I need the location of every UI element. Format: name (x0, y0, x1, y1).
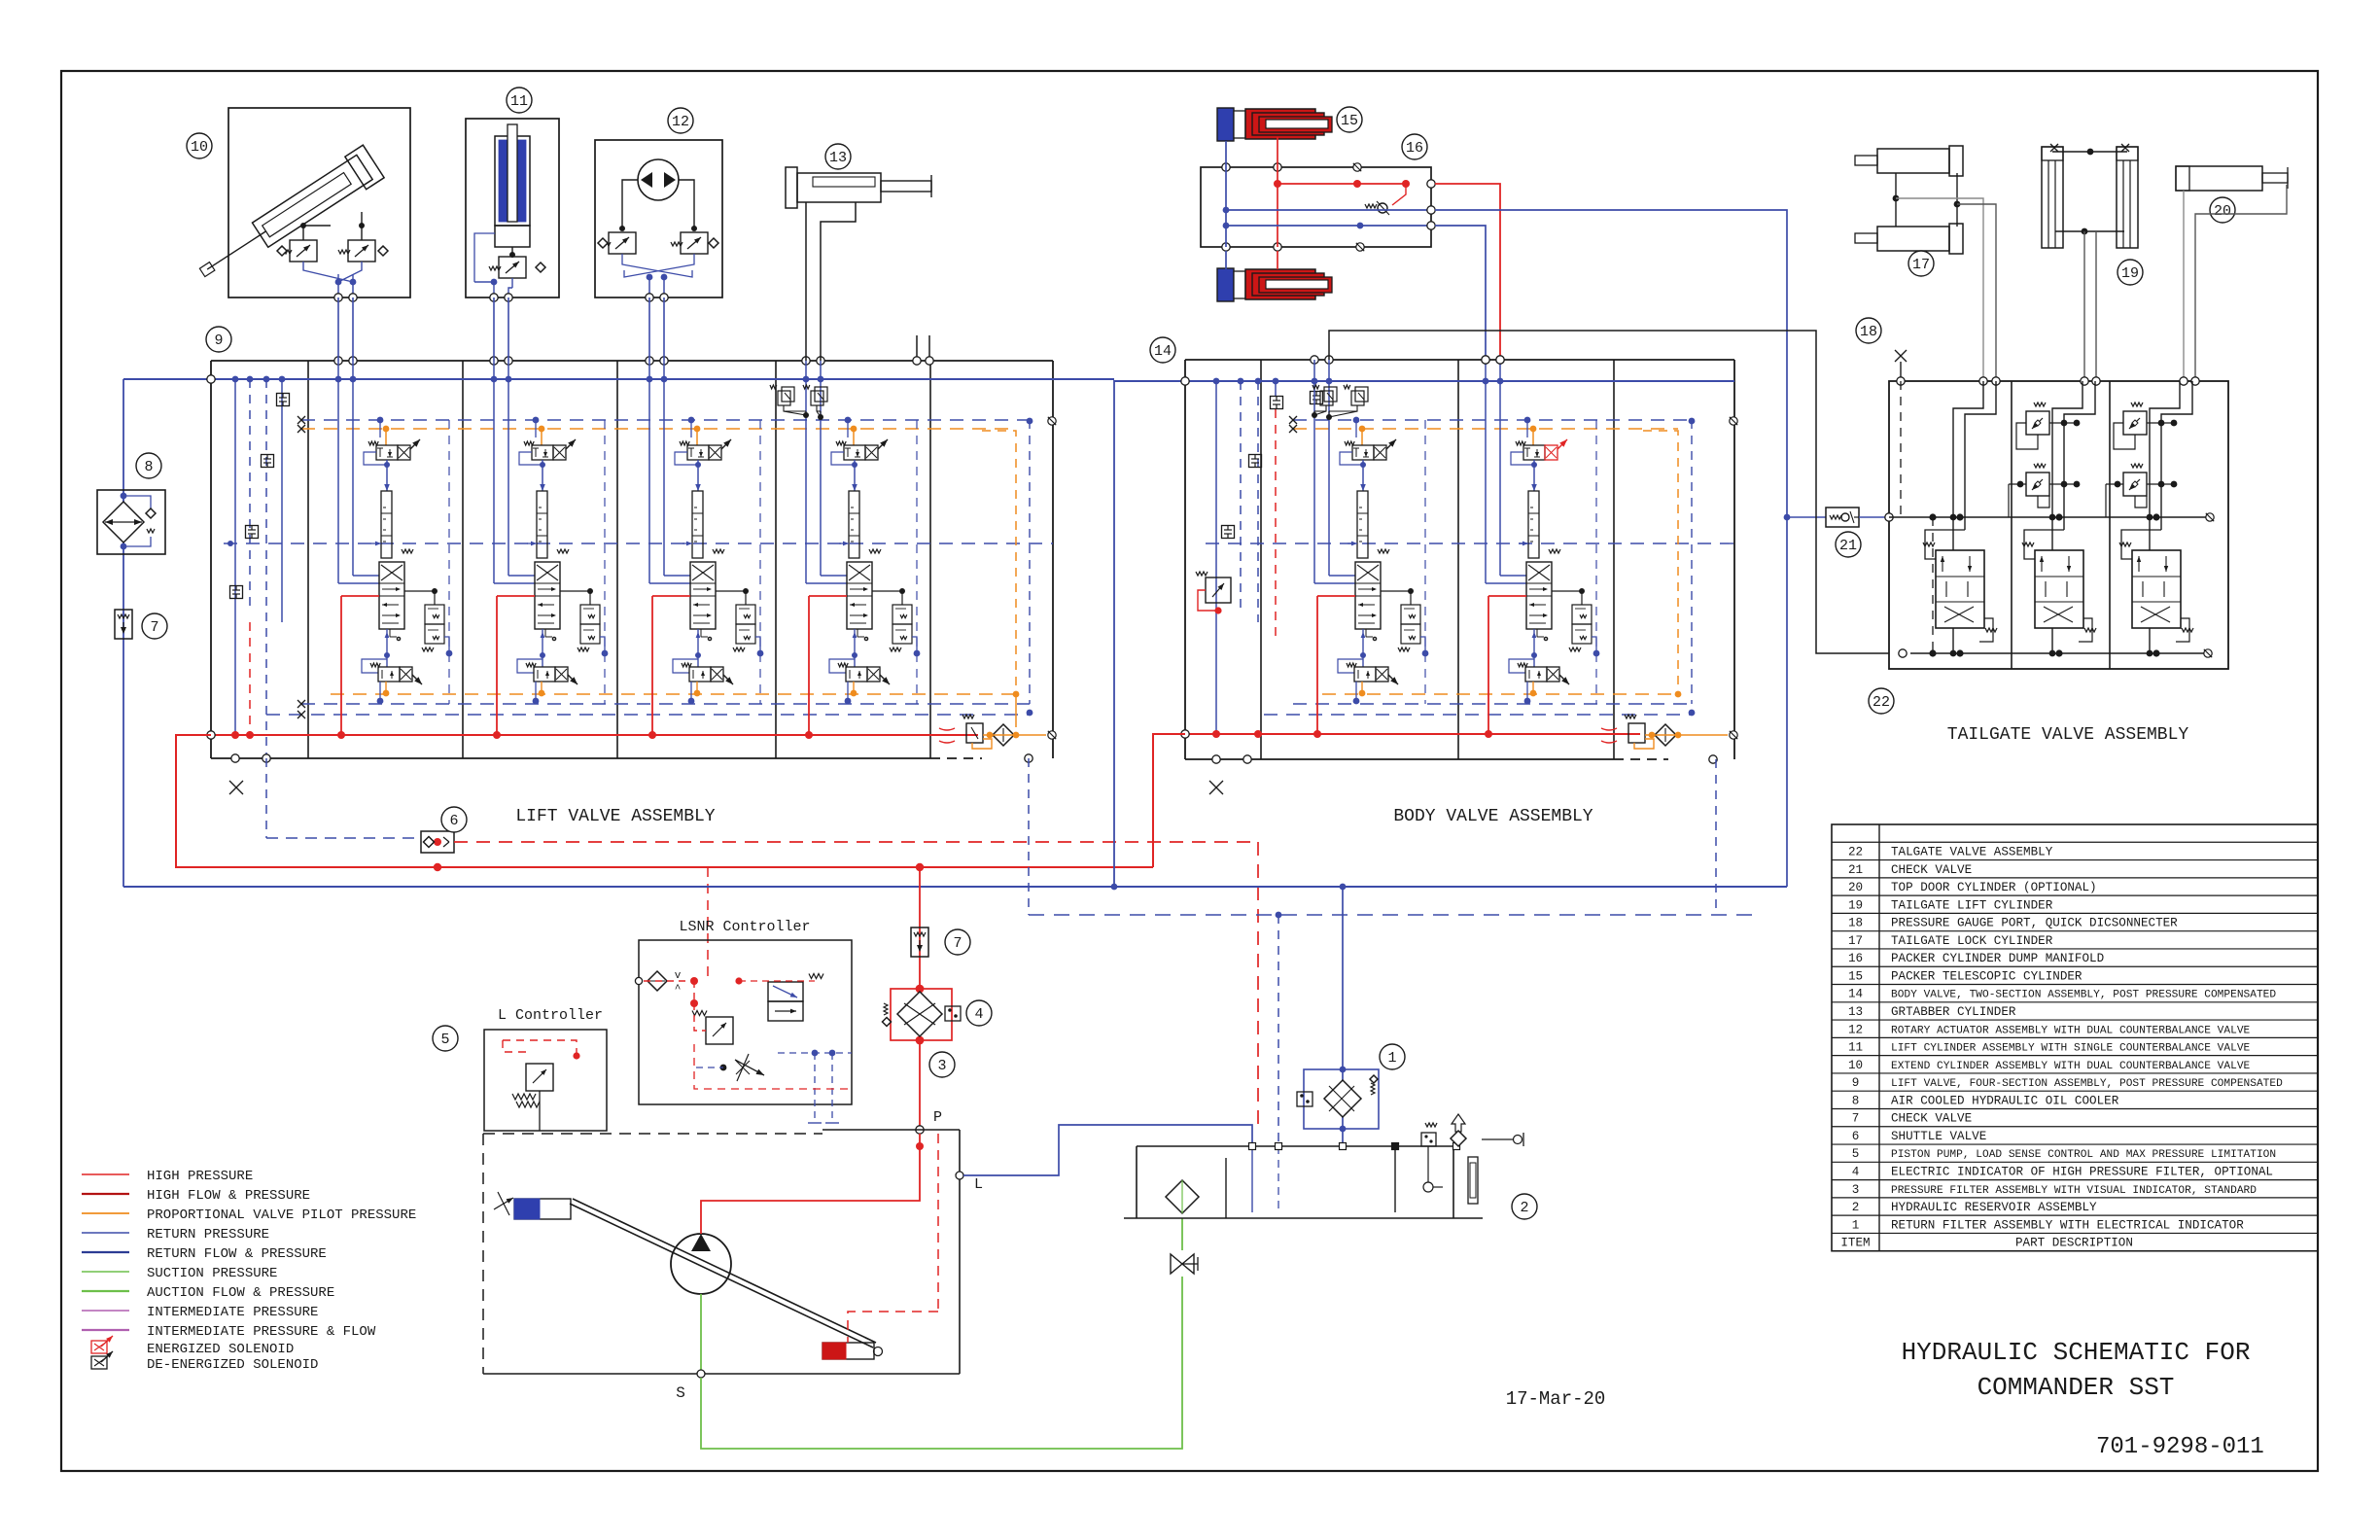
svg-text:PACKER TELESCOPIC CYLINDER: PACKER TELESCOPIC CYLINDER (1891, 969, 2082, 983)
svg-text:5: 5 (1852, 1147, 1860, 1161)
red pilot into pump box (848, 1134, 938, 1343)
wire: box11 to lift section2 (494, 297, 508, 361)
svg-text:EXTEND CYLINDER ASSEMBLY WITH: EXTEND CYLINDER ASSEMBLY WITH DUAL COUNT… (1891, 1061, 2251, 1072)
lift valve assembly rails (123, 375, 1114, 794)
pilot relief glyphs section 4 (770, 385, 827, 420)
wire: manifold blue to body station B (1435, 226, 1489, 364)
svg-text:14: 14 (1848, 988, 1863, 1001)
wire: manifold red to body station B (1435, 184, 1504, 364)
BODY VALVE ASSEMBLY label (1393, 807, 1592, 826)
P riser red line (919, 867, 921, 1130)
wire: cylinder13 to lift section4 (806, 202, 856, 361)
svg-text:TAILGATE VALVE ASSEMBLY: TAILGATE VALVE ASSEMBLY (1947, 725, 2189, 745)
svg-text:P: P (933, 1109, 942, 1126)
svg-text:3: 3 (1852, 1183, 1860, 1197)
svg-text:18: 18 (1848, 917, 1863, 930)
body valve station B (energized) (1482, 356, 1600, 738)
svg-text:22: 22 (1848, 845, 1863, 858)
return filter assembly 1 (1297, 887, 1405, 1146)
svg-text:ELECTRIC INDICATOR OF HIGH PRE: ELECTRIC INDICATOR OF HIGH PRESSURE FILT… (1891, 1166, 2273, 1179)
svg-text:17-Mar-20: 17-Mar-20 (1506, 1388, 1606, 1410)
svg-text:AUCTION FLOW & PRESSURE: AUCTION FLOW & PRESSURE (147, 1285, 334, 1301)
svg-text:BODY VALVE, TWO-SECTION ASSEMB: BODY VALVE, TWO-SECTION ASSEMBLY, POST P… (1891, 990, 2276, 1001)
svg-text:RETURN FLOW & PRESSURE: RETURN FLOW & PRESSURE (147, 1246, 327, 1262)
svg-text:10: 10 (1848, 1059, 1863, 1072)
body assembly end section (1601, 417, 1737, 749)
lift valve station 4 (802, 357, 921, 739)
svg-text:RETURN FILTER ASSEMBLY WITH EL: RETURN FILTER ASSEMBLY WITH ELECTRICAL I… (1891, 1218, 2244, 1232)
lift valve assembly 9 outline (211, 361, 1053, 762)
svg-text:LIFT VALVE, FOUR-SECTION ASSEM: LIFT VALVE, FOUR-SECTION ASSEMBLY, POST … (1891, 1078, 2283, 1090)
tailgate valve station 2 (2009, 381, 2096, 656)
rotary actuator assembly 12 (595, 108, 722, 301)
lift assembly end section (913, 335, 1056, 749)
svg-text:PROPORTIONAL VALVE PILOT PRESS: PROPORTIONAL VALVE PILOT PRESSURE (147, 1207, 416, 1223)
svg-text:TOP DOOR CYLINDER (OPTIONAL): TOP DOOR CYLINDER (OPTIONAL) (1891, 881, 2097, 894)
svg-text:DE-ENERGIZED SOLENOID: DE-ENERGIZED SOLENOID (147, 1357, 318, 1373)
wire: box12 to lift section3 (649, 297, 664, 361)
tailgate assembly trunks (1859, 381, 2214, 657)
svg-text:ENERGIZED SOLENOID: ENERGIZED SOLENOID (147, 1342, 294, 1357)
wire: box10 to lift section1 (338, 297, 353, 361)
svg-text:7: 7 (1852, 1112, 1860, 1126)
check valve 7 on riser (911, 927, 970, 957)
svg-text:13: 13 (829, 150, 847, 166)
svg-text:ITEM: ITEM (1840, 1237, 1870, 1250)
wire: cylinder17 to tailgate valve (1896, 198, 1996, 381)
svg-text:^: ^ (675, 984, 682, 996)
blue return dashed line (1029, 758, 1758, 1146)
svg-text:21: 21 (1848, 863, 1863, 877)
svg-text:SHUTTLE VALVE: SHUTTLE VALVE (1891, 1130, 1986, 1143)
S port suction line (676, 1218, 1182, 1449)
svg-text:20: 20 (1848, 881, 1863, 894)
svg-text:GRTABBER CYLINDER: GRTABBER CYLINDER (1891, 1005, 2016, 1019)
svg-text:10: 10 (191, 139, 208, 156)
drawing title (1902, 1338, 2264, 1460)
svg-text:TAILGATE LOCK CYLINDER: TAILGATE LOCK CYLINDER (1891, 934, 2053, 948)
svg-text:4: 4 (1852, 1166, 1860, 1179)
wire: cylinder19 to tailgate valve (2055, 228, 2124, 381)
svg-text:3: 3 (937, 1058, 946, 1074)
svg-text:INTERMEDIATE PRESSURE: INTERMEDIATE PRESSURE (147, 1305, 318, 1320)
svg-text:16: 16 (1848, 952, 1863, 965)
svg-text:8: 8 (1852, 1094, 1860, 1107)
svg-text:CHECK VALVE: CHECK VALVE (1891, 1112, 1972, 1126)
svg-text:12: 12 (672, 114, 689, 130)
svg-text:RETURN PRESSURE: RETURN PRESSURE (147, 1227, 269, 1242)
svg-text:17: 17 (1912, 257, 1930, 273)
svg-text:1: 1 (1387, 1050, 1396, 1067)
svg-text:CHECK VALVE: CHECK VALVE (1891, 863, 1972, 877)
svg-text:9: 9 (1852, 1076, 1860, 1090)
P port label (916, 1109, 942, 1134)
svg-text:6: 6 (449, 813, 458, 829)
svg-text:22: 22 (1872, 694, 1890, 711)
tailgate lock cylinder 17 (1855, 146, 1963, 276)
svg-text:11: 11 (510, 93, 528, 110)
svg-text:PISTON PUMP, LOAD SENSE CONTRO: PISTON PUMP, LOAD SENSE CONTROL AND MAX … (1891, 1149, 2276, 1161)
pilot relief glyphs body station A (1312, 385, 1368, 420)
air cooled oil cooler 8 (97, 379, 165, 887)
shuttle valve 6 (266, 758, 467, 853)
tailgate valve station 3 (2106, 381, 2193, 656)
extend cylinder assembly 10 (187, 108, 410, 301)
svg-text:1: 1 (1852, 1218, 1860, 1232)
circled 5 (433, 1026, 458, 1051)
svg-text:v: v (675, 970, 682, 982)
svg-text:17: 17 (1848, 934, 1863, 948)
svg-text:INTERMEDIATE PRESSURE & FLOW: INTERMEDIATE PRESSURE & FLOW (147, 1324, 376, 1340)
svg-text:PART DESCRIPTION: PART DESCRIPTION (2015, 1237, 2133, 1250)
svg-text:COMMANDER SST: COMMANDER SST (1977, 1373, 2175, 1402)
svg-text:2: 2 (1852, 1201, 1860, 1214)
svg-text:S: S (676, 1384, 685, 1402)
svg-text:L Controller: L Controller (498, 1007, 603, 1024)
wire: body valve to tailgate assembly return (1329, 331, 1889, 653)
blue return trunk (123, 884, 1787, 891)
LIFT VALVE ASSEMBLY label (515, 807, 715, 826)
svg-text:11: 11 (1848, 1041, 1863, 1055)
svg-text:20: 20 (2214, 203, 2231, 220)
svg-text:TAILGATE LIFT CYLINDER: TAILGATE LIFT CYLINDER (1891, 898, 2053, 912)
lift valve station 1 (334, 357, 453, 739)
svg-text:21: 21 (1839, 538, 1857, 554)
svg-text:LIFT CYLINDER ASSEMBLY WITH SI: LIFT CYLINDER ASSEMBLY WITH SINGLE COUNT… (1891, 1043, 2251, 1055)
svg-text:15: 15 (1341, 113, 1358, 129)
svg-text:LSNR Controller: LSNR Controller (679, 919, 810, 935)
packer telescopic cylinder 15 bottom (1217, 268, 1332, 301)
svg-text:8: 8 (144, 459, 153, 475)
TAILGATE VALVE ASSEMBLY label (1947, 725, 2189, 745)
svg-text:TALGATE VALVE ASSEMBLY: TALGATE VALVE ASSEMBLY (1891, 845, 2053, 858)
grabber cylinder 13 (786, 144, 931, 208)
svg-text:5: 5 (440, 1032, 449, 1048)
circled 14 (1150, 337, 1175, 363)
date (1506, 1388, 1606, 1410)
wire: manifold blue to tailgate check valve (1435, 210, 1826, 887)
circled 9 (206, 327, 231, 352)
svg-text:19: 19 (1848, 898, 1863, 912)
body valve station A (1311, 356, 1429, 738)
parts list table (1832, 824, 2318, 1251)
svg-text:HYDRAULIC SCHEMATIC FOR: HYDRAULIC SCHEMATIC FOR (1902, 1338, 2251, 1367)
red pressure trunk from pump (176, 735, 1153, 871)
top door cylinder 20 (2176, 166, 2288, 223)
drain shut-off valve (1171, 1254, 1198, 1274)
lift cylinder assembly 11 (466, 87, 559, 301)
svg-text:HYDRAULIC RESERVOIR ASSEMBLY: HYDRAULIC RESERVOIR ASSEMBLY (1891, 1201, 2097, 1214)
svg-text:16: 16 (1406, 140, 1423, 157)
red trunk from body assembly (1153, 734, 1185, 867)
tailgate valve assembly 22 outline (1889, 377, 2228, 669)
circled 22 (1869, 688, 1894, 714)
lift valve station 2 (490, 357, 609, 739)
check valve 21 (1826, 507, 1861, 557)
body valve assembly rails (1114, 377, 1734, 794)
packer cylinder dump manifold 16 (1201, 134, 1435, 269)
svg-text:HIGH FLOW & PRESSURE: HIGH FLOW & PRESSURE (147, 1188, 310, 1204)
red pilot line from shuttle (454, 842, 1258, 1130)
svg-text:701-9298-011: 701-9298-011 (2096, 1434, 2264, 1460)
LSNR Controller box (635, 919, 852, 1123)
blue rail drop (1113, 380, 1115, 887)
L Controller box (484, 1007, 607, 1131)
svg-text:4: 4 (974, 1006, 983, 1023)
svg-text:AIR COOLED HYDRAULIC OIL COOLE: AIR COOLED HYDRAULIC OIL COOLER (1891, 1094, 2119, 1107)
svg-text:18: 18 (1860, 324, 1877, 340)
pump assembly boundary (483, 1130, 960, 1374)
svg-text:13: 13 (1848, 1005, 1863, 1019)
piston pump 5 (494, 1192, 883, 1359)
legend (82, 1169, 416, 1373)
svg-text:7: 7 (150, 619, 158, 636)
L port line (956, 1125, 1252, 1193)
pressure gauge port 18 (1856, 318, 1907, 381)
tailgate valve station 1 (1923, 381, 1997, 656)
svg-text:PRESSURE FILTER ASSEMBLY WITH: PRESSURE FILTER ASSEMBLY WITH VISUAL IND… (1891, 1185, 2257, 1197)
svg-text:7: 7 (953, 935, 962, 952)
svg-text:ROTARY ACTUATOR ASSEMBLY WITH: ROTARY ACTUATOR ASSEMBLY WITH DUAL COUNT… (1891, 1025, 2251, 1036)
svg-text:6: 6 (1852, 1130, 1860, 1143)
svg-text:19: 19 (2121, 265, 2139, 282)
wire: cylinder20 to tailgate valve (2184, 185, 2287, 381)
svg-text:SUCTION PRESSURE: SUCTION PRESSURE (147, 1266, 277, 1281)
hydraulic reservoir assembly 2 (1124, 1114, 1537, 1219)
svg-text:14: 14 (1154, 343, 1172, 360)
svg-text:L: L (974, 1176, 983, 1193)
svg-text:LIFT VALVE ASSEMBLY: LIFT VALVE ASSEMBLY (515, 807, 715, 826)
check valve 7 left (115, 610, 167, 639)
svg-text:PACKER CYLINDER DUMP MANIFOLD: PACKER CYLINDER DUMP MANIFOLD (1891, 952, 2104, 965)
svg-text:12: 12 (1848, 1023, 1863, 1036)
red discharge line pump to P (701, 1134, 924, 1234)
svg-text:HIGH PRESSURE: HIGH PRESSURE (147, 1169, 253, 1184)
body valve assembly 14 outline (1185, 360, 1734, 763)
svg-text:9: 9 (214, 332, 223, 349)
packer telescopic cylinder 15 top (1217, 107, 1362, 141)
lift valve station 3 (646, 357, 764, 739)
svg-text:BODY VALVE ASSEMBLY: BODY VALVE ASSEMBLY (1393, 807, 1592, 826)
tailgate lift cylinder 19 (2042, 144, 2143, 285)
svg-text:2: 2 (1520, 1200, 1528, 1216)
pressure filter assembly 3 with electric indicator 4 (883, 985, 993, 1077)
svg-text:15: 15 (1848, 969, 1863, 983)
svg-text:PRESSURE GAUGE PORT, QUICK DIC: PRESSURE GAUGE PORT, QUICK DICSONNECTER (1891, 917, 2178, 930)
